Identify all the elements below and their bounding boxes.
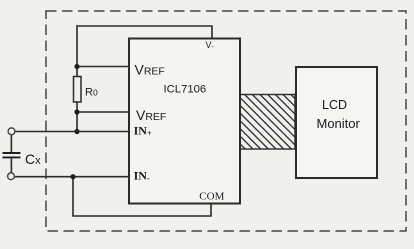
svg-text:LCD: LCD <box>322 98 347 112</box>
wire VREF upper <box>77 66 129 68</box>
terminal bottom <box>8 173 15 180</box>
wire COM return <box>73 177 211 216</box>
IC U1 ICL7106 <box>129 39 240 204</box>
wire left vertical upper <box>76 25 78 76</box>
capacitor Cx <box>3 135 21 173</box>
wire left vertical lower <box>76 102 78 132</box>
wire IN- <box>14 176 129 178</box>
dashed enclosure border <box>46 11 406 231</box>
svg-text:COM: COM <box>199 191 224 203</box>
LCD monitor block <box>296 67 377 178</box>
wire top V- supply <box>77 26 212 39</box>
terminal top <box>8 128 15 135</box>
LCD display connector (hatched band) <box>240 95 295 150</box>
wire VREF lower <box>77 111 129 113</box>
svg-text:ICL7106: ICL7106 <box>164 83 207 95</box>
node junction IN- <box>70 174 75 179</box>
svg-text:Monitor: Monitor <box>317 116 361 131</box>
wire IN+ <box>15 131 129 133</box>
resistor R0 <box>74 77 82 103</box>
svg-text:R0: R0 <box>85 87 98 99</box>
node junction VREF lower <box>74 109 79 114</box>
node junction IN+ <box>74 129 79 134</box>
node junction VREF upper <box>74 64 79 69</box>
